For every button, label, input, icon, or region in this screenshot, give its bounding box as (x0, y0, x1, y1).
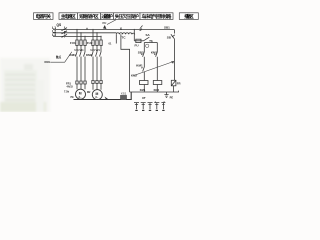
annotation arrowheads mid control (141, 54, 156, 69)
svg-text:U21 V21: U21 V21 (91, 49, 101, 52)
relay FR contact (171, 80, 176, 86)
header box: 电源开关 (34, 13, 54, 20)
svg-text:FU1: FU1 (70, 41, 76, 45)
motor M2 (92, 90, 102, 100)
svg-text:3~: 3~ (95, 95, 98, 99)
wire control rail right drop (174, 30, 176, 34)
svg-text:XS1: XS1 (121, 92, 127, 96)
contactor KM1 main contacts (76, 52, 86, 81)
tiny text labels (45, 21, 181, 103)
header box: 失压欠压保护 (114, 13, 141, 20)
wire TC left lead (115, 34, 117, 43)
annotation arrowhead FU (103, 25, 106, 29)
button SB3 contact on branch 2 (156, 43, 158, 81)
annotation leader left KM1 (50, 52, 72, 62)
header box: 播放区 (179, 13, 198, 20)
svg-text:KM1: KM1 (136, 63, 143, 67)
header box: 主电路区 (59, 13, 78, 20)
svg-text:主电路区: 主电路区 (61, 13, 76, 20)
wire TC right lead to rail (133, 30, 135, 41)
svg-text:KM1: KM1 (151, 50, 158, 54)
thermal relay FR2 heaters (92, 81, 102, 90)
svg-text:车床电气控制线路: 车床电气控制线路 (142, 13, 172, 20)
svg-text:电源开关: 电源开关 (36, 13, 52, 20)
fuse FU2 (3 cartridges) (92, 40, 102, 52)
button SB1 contact on right rail (171, 34, 175, 80)
svg-text:FR: FR (177, 82, 181, 86)
wire PE line under motors with riser (74, 92, 132, 100)
header box: 过载保护 (101, 13, 114, 20)
ground PE symbol under rail (164, 92, 168, 98)
connector XS hatched box (121, 95, 127, 99)
svg-text:4A/15: 4A/15 (67, 86, 74, 89)
switch QS link dashed (64, 27, 66, 38)
node A junctions (76, 29, 85, 37)
annotation cursor mark (105, 97, 109, 100)
svg-text:PE: PE (170, 96, 174, 100)
coil KM2 (153, 81, 162, 85)
switch SA contact (144, 37, 153, 42)
wire L1 phase bus / control top rail (53, 29, 175, 31)
node B junctions (92, 29, 135, 37)
thermal relay FR1 heaters (76, 81, 86, 89)
wire branch A drops (77, 30, 85, 40)
wire bottom control rail (130, 91, 179, 92)
svg-text:XT: XT (142, 96, 146, 100)
svg-text:KM2: KM2 (131, 74, 137, 78)
svg-text:KM2: KM2 (154, 88, 160, 92)
header box: 短路保护区 (78, 13, 101, 20)
header label boxes (34, 13, 199, 20)
schematic strokes (50, 20, 178, 111)
svg-text:KM2: KM2 (86, 53, 93, 57)
wire L2 phase bus (53, 32, 116, 34)
svg-text:KM1: KM1 (45, 60, 51, 64)
wire L3 phase bus (53, 35, 101, 37)
button SB2 contact on branch 1 (143, 43, 145, 68)
svg-text:过载保护: 过载保护 (101, 13, 113, 20)
svg-text:SB1: SB1 (164, 26, 170, 30)
svg-text:失压欠压保护: 失压欠压保护 (115, 13, 139, 20)
fuse FU3 (136, 39, 141, 42)
svg-text:7.5k: 7.5k (64, 90, 70, 94)
svg-text:FU: FU (103, 21, 107, 25)
wire branch B drops (93, 30, 101, 40)
wire branch tie (144, 42, 157, 44)
terminal strip XT (134, 103, 165, 111)
coil KM1 (140, 81, 149, 85)
svg-text:SB2: SB2 (138, 50, 144, 54)
faint building photo bottom-left (0, 58, 50, 112)
svg-text:播放区: 播放区 (184, 13, 194, 20)
switch QS blades (62, 28, 68, 38)
svg-text:QS: QS (57, 23, 62, 27)
header box: 车床电气控制线路 (140, 13, 173, 20)
wire TC secondary drop to left rail (121, 34, 130, 92)
motor M1 (76, 89, 86, 99)
contactor KM2 main contacts (92, 52, 102, 80)
contact KM1 self-hold on branch 1 (143, 67, 145, 81)
svg-text:U11 V11: U11 V11 (75, 49, 85, 52)
svg-text:KM1: KM1 (140, 88, 146, 92)
annotation arrow long diagonal (135, 62, 173, 76)
annotation arrowhead long diagonal (171, 61, 174, 64)
node circled wire number (146, 44, 149, 47)
svg-text:触点: 触点 (56, 55, 62, 59)
svg-text:FU2: FU2 (87, 41, 93, 45)
annotation arrow onto rail (140, 26, 143, 29)
annotation leader FU to header (107, 20, 116, 25)
node tick above rail (86, 28, 87, 30)
wire control secondary run (134, 40, 143, 42)
fuse FU1 (3 cartridges) (76, 40, 86, 52)
svg-text:PE: PE (71, 96, 75, 99)
svg-text:L3: L3 (52, 33, 56, 37)
svg-text:短路保护区: 短路保护区 (79, 13, 99, 20)
transformer TC winding (116, 33, 135, 35)
svg-text:KM1: KM1 (70, 53, 77, 57)
svg-text:3~: 3~ (79, 95, 82, 99)
svg-text:FU: FU (135, 44, 139, 48)
